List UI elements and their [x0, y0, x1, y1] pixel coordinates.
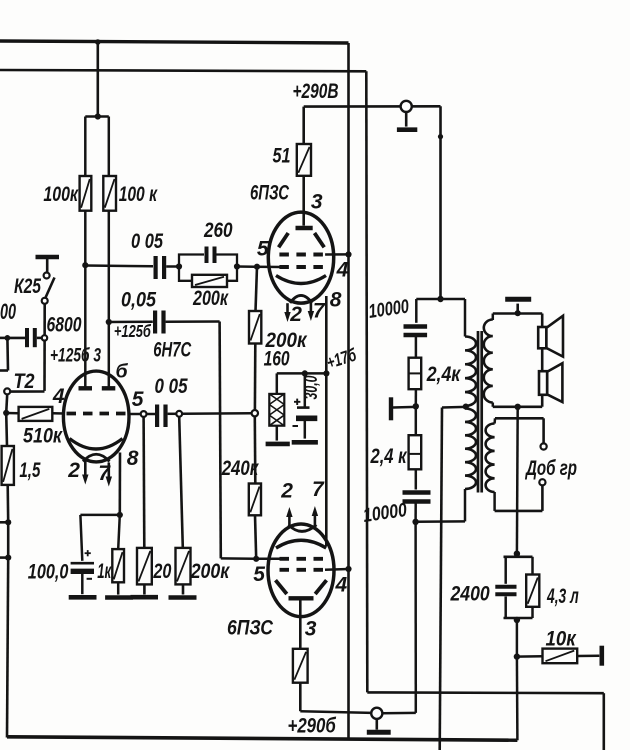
node junction primary center tap [463, 404, 469, 410]
capacitor 260 (top branch) [179, 255, 204, 267]
svg-text:б: б [116, 361, 129, 383]
wire secondary 1 top lead [492, 314, 495, 321]
svg-text:5: 5 [132, 388, 144, 411]
wire cap to bottom node [414, 504, 417, 522]
node junction grid-1 lower tube [253, 556, 259, 562]
node junction resistor split [95, 113, 101, 119]
ground bar cap 30 [292, 440, 318, 445]
wire V3 pin 4 to bus1 [325, 568, 349, 571]
capacitor 100,0 electrolytic [71, 562, 94, 565]
wire V2 pin 4 to bus1 [325, 253, 348, 256]
wire cap 100 bottom lead [81, 574, 84, 594]
svg-text:6ПЗС: 6ПЗС [250, 182, 290, 205]
wire 2.4k to cap lower [415, 469, 418, 489]
svg-text:6Н7С: 6Н7С [153, 339, 192, 362]
wire pot bottom lead [276, 426, 279, 441]
svg-text:5: 5 [253, 563, 265, 586]
node terminal after cap [176, 411, 182, 417]
wire chain bottom down [414, 522, 417, 713]
wire center tap down to bottom edge [440, 408, 442, 750]
tube V3 6P3S envelope [268, 524, 334, 617]
resistor 2.4k upper [409, 358, 422, 390]
wire RC left branch lower [504, 597, 507, 619]
node junction anode-6 / coupling [106, 319, 112, 325]
svg-text:2: 2 [289, 303, 302, 326]
tube V2 anode bar [296, 226, 313, 230]
ground bar +290V bottom [367, 730, 391, 735]
tube V2 beam plate right [315, 233, 325, 247]
speaker LS2 [539, 371, 547, 395]
wire 51 to anode V2 [302, 176, 305, 213]
svg-text:160: 160 [264, 348, 290, 371]
wire chassis to switch [46, 259, 49, 273]
svg-text:4: 4 [336, 259, 349, 282]
wire RC top [516, 554, 519, 557]
resistor 100k right [103, 176, 116, 211]
wire 6800 left lead [7, 337, 25, 340]
wire secondary 2 bottom lead [493, 492, 496, 511]
pin 2 heater lead U1 [84, 461, 87, 476]
wire left anode lead (pin 3 of 6N7S) [84, 211, 87, 387]
chassis bar above K25 [36, 255, 60, 259]
capacitor 2400 [495, 585, 516, 589]
wire +290V to 51 [302, 107, 305, 144]
svg-text:10к: 10к [546, 628, 577, 651]
wire bottom horizontal from bus 2 [367, 691, 604, 694]
capacitor 30,0 plus sign [294, 401, 300, 403]
svg-text:200к: 200к [192, 287, 229, 310]
tube V2 anode lead pin 3 [302, 212, 305, 225]
wire secondary 2 top lead [495, 417, 544, 420]
node terminal +290V bottom [371, 708, 382, 719]
svg-text:0 05: 0 05 [155, 375, 188, 398]
node junction 6800 left [5, 335, 11, 341]
pin 7 heater lead V3 [314, 516, 317, 529]
wire switch corner to input [10, 390, 44, 393]
wire cap to 2.4k upper [415, 337, 418, 358]
ground 200k grid leak [182, 584, 185, 594]
wire cathode to cap 100 [80, 514, 119, 517]
wire stub to left edge [0, 337, 7, 340]
svg-text:510к: 510к [23, 425, 63, 448]
wire 510k to grid pin 4 [52, 412, 64, 415]
node junction RC bottom [514, 617, 520, 623]
tube U1 cathode arc [70, 439, 123, 450]
node junction pin4 V3 bus1 [345, 566, 351, 572]
pin 7 heater lead V2 [310, 303, 313, 313]
switch K25 lever [46, 278, 55, 298]
svg-text:8: 8 [330, 289, 342, 312]
svg-text:1к: 1к [97, 560, 112, 583]
node junction RC top [514, 551, 520, 557]
wire top rail 2 [0, 70, 366, 71]
node junction 10k tap [514, 653, 520, 659]
node terminal dob gr lower [539, 479, 545, 485]
wire RC bottom [504, 617, 533, 620]
wire cap 30 top lead [304, 373, 307, 406]
tube V2 beam plate left [279, 233, 289, 247]
tube V3 heater arc [289, 525, 317, 532]
wire anode resistor to terminal [300, 711, 371, 713]
resistor 51 [297, 144, 311, 176]
svg-text:T2: T2 [14, 370, 35, 393]
wire primary bottom lead [464, 489, 467, 521]
wire split to primary top [441, 298, 466, 301]
capacitor 0.05 mid [155, 405, 159, 428]
tube V3 cathode arc [276, 540, 326, 548]
tube U1 anode plate 3 [79, 386, 93, 390]
wire 2.4k to center node [415, 389, 418, 406]
wire to 10k [517, 655, 543, 658]
chassis stub secondary [516, 304, 519, 314]
wire pin5 down to 20ohm [142, 417, 145, 548]
tube V3 beam plate left [276, 580, 287, 594]
tube V2 heater arc [290, 295, 312, 302]
svg-text:7: 7 [312, 478, 325, 501]
node junction parallel net left [176, 263, 182, 269]
wire RC right branch lower [531, 607, 534, 618]
wire left column upper [5, 413, 8, 446]
capacitor 100,0 minus sign [87, 578, 92, 580]
ground 20 resistor [143, 584, 146, 594]
wire stub left 2 [0, 556, 8, 559]
wire top rail 1 [0, 41, 349, 43]
wire right bus upper [439, 106, 442, 299]
tube V2 control grid dashed [279, 265, 325, 269]
wire divider mid lower [254, 416, 257, 483]
tube V3 anode bar [289, 596, 314, 600]
wire speaker column [541, 314, 544, 407]
wire stub left at 370 [0, 369, 8, 372]
resistor 1k [112, 549, 124, 582]
wire coupling lower [109, 321, 153, 324]
ground bar 1k [117, 582, 120, 594]
node junction input [3, 410, 9, 416]
wire pin5 to cap [147, 413, 156, 416]
svg-text:4: 4 [52, 385, 65, 408]
wire cap to parallel net [166, 265, 179, 268]
capacitor 10000 lower [403, 490, 431, 494]
svg-text:7: 7 [98, 462, 111, 485]
wire split to chain [416, 298, 440, 301]
wire edge link down [6, 338, 9, 371]
resistor 510k [19, 407, 53, 421]
node terminal divider mid [252, 410, 258, 416]
pin 2 heater lead V3 [288, 517, 291, 527]
chassis bar chain center [389, 397, 393, 420]
ground bar +290V top [397, 127, 417, 132]
svg-text:7: 7 [313, 300, 326, 323]
wire pot top lead [276, 373, 279, 394]
switch K25 contact lower [42, 298, 48, 304]
resistor 2.4k lower [409, 435, 422, 469]
svg-text:Доб гр: Доб гр [525, 457, 578, 480]
resistor 20 [137, 548, 152, 585]
svg-text:3: 3 [305, 618, 317, 641]
capacitor 30,0 electrolytic [297, 406, 310, 409]
node junction chain center [413, 403, 419, 409]
wire secondary 1 bottom lead [492, 403, 495, 407]
wire right resistor top lead [108, 117, 111, 177]
svg-text:4: 4 [335, 574, 348, 597]
wire RC left branch upper [504, 557, 507, 584]
capacitor 6800 [25, 328, 29, 347]
pin 5 terminal 6N7S [141, 411, 147, 417]
svg-text:+125б 3: +125б 3 [50, 345, 101, 367]
resistor 240k [249, 484, 261, 516]
svg-text:00: 00 [0, 299, 16, 324]
transformer secondary 2 winding [486, 424, 495, 493]
node junction left stub 1 [5, 519, 11, 525]
speaker LS1 [538, 327, 546, 348]
wire bus 1 vertical (+290V screen bus) [347, 43, 350, 739]
wire cap 30 bottom lead [304, 421, 307, 439]
node junction left stub 2 [5, 555, 11, 561]
svg-text:20: 20 [153, 560, 172, 583]
wire left column lower [7, 522, 10, 557]
svg-text:240к: 240к [221, 457, 259, 480]
wire 10k node to bottom rail [516, 657, 519, 741]
resistor 4.3 [526, 575, 539, 607]
svg-text:51: 51 [273, 145, 291, 168]
capacitor 0.05 upper [154, 256, 158, 279]
node blob right bus [438, 134, 443, 139]
node junction cathode bias [323, 370, 329, 376]
wire input to 510k [6, 412, 18, 415]
wire terminal stub [405, 112, 408, 127]
wire corner down to lower grid [220, 322, 221, 559]
wire feedback line [516, 407, 519, 554]
node terminal +290V top [401, 101, 412, 112]
chassis bar secondary [505, 297, 531, 302]
terminal bar 10k [599, 646, 604, 666]
svg-text:2,4к: 2,4к [426, 363, 462, 386]
pin 7 heater lead U1 [108, 463, 111, 478]
svg-text:100,0: 100,0 [28, 561, 69, 584]
transformer primary upper winding [465, 337, 476, 406]
capacitor 0.05 lower [153, 311, 157, 334]
tube V3 beam plate right [315, 580, 326, 594]
svg-text:0,05: 0,05 [121, 289, 156, 312]
wire center to chassis bar [393, 406, 416, 409]
transformer primary lower winding [465, 409, 476, 490]
tube V2 6P3S envelope [268, 212, 333, 303]
svg-text:260: 260 [203, 219, 233, 242]
wire cathode to 1k [118, 515, 120, 549]
wire coupling upper [85, 264, 153, 267]
tube V2 cathode arc [276, 276, 326, 284]
tube U1 heater arc [83, 454, 110, 461]
wire to lower grid node [221, 557, 256, 560]
svg-text:100 к: 100 к [119, 183, 158, 206]
wire terminal to divider [182, 412, 252, 415]
node input terminal T2 [4, 388, 10, 394]
tube U1 anode plate 6 [102, 386, 116, 390]
node junction pin4 V2 bus1 [345, 251, 351, 257]
wire left column to bottom rail [7, 558, 8, 738]
wire terminal stub bottom [375, 719, 378, 730]
svg-text:100к: 100к [43, 183, 79, 206]
wire grid node down [256, 267, 258, 311]
tube V2 screen grid dashed [279, 253, 325, 257]
resistor anode V3 [293, 649, 308, 683]
wire corner to +290V bottom terminal [382, 712, 415, 715]
svg-text:2: 2 [280, 480, 293, 503]
resistor 160 wirewound [269, 394, 284, 426]
wire bus 2 vertical [366, 71, 367, 692]
ground bar pot [266, 442, 290, 447]
wire bottom rail [7, 737, 517, 740]
node junction grid-1 upper tube [254, 264, 260, 270]
wire +290V rail [304, 105, 441, 108]
node junction top rail / plate feed [95, 39, 101, 45]
wire 10k to terminal [577, 655, 599, 658]
svg-text:2400: 2400 [450, 583, 490, 606]
svg-text:30,0: 30,0 [301, 376, 321, 400]
wire pin 8 cathode lead U1 [119, 453, 122, 515]
svg-text:6ПЗС: 6ПЗС [227, 617, 274, 640]
wire pin5 lead [128, 413, 141, 416]
svg-text:2: 2 [67, 459, 80, 482]
wire V3 pin 5 lead [256, 558, 279, 561]
resistor 200k (bottom branch) [179, 267, 192, 281]
tube V3 anode lead pin 3 [299, 598, 302, 649]
wire left column mid [6, 485, 9, 522]
svg-text:4,3 л: 4,3 л [546, 585, 578, 608]
node terminal dob gr upper [541, 443, 547, 449]
transformer core [477, 331, 480, 493]
capacitor 100,0 plus sign [85, 552, 91, 554]
pin 2 heater lead V2 [286, 303, 289, 313]
resistor 200k divider [249, 311, 261, 344]
node junction parallel net right [234, 263, 240, 269]
node junction anode-3 / coupling [82, 262, 88, 268]
wire after-cap down to 200k [179, 417, 183, 548]
svg-text:+290б: +290б [288, 715, 337, 738]
resistor 100k left [80, 176, 92, 211]
wire plate feed vertical [97, 42, 100, 117]
transformer secondary 1 winding [484, 320, 493, 403]
svg-text:8: 8 [127, 447, 139, 470]
svg-text:0 05: 0 05 [131, 230, 163, 253]
wire 240k to lower grid node [255, 515, 256, 559]
wire right anode lead (pin 6 of 6N7S) [108, 211, 111, 387]
wire input down [6, 394, 7, 413]
node junction secondary top [515, 310, 521, 316]
wire bias tap [277, 372, 327, 375]
wire 6800 right lead [37, 337, 42, 340]
tube V3 control grid dashed [280, 557, 326, 561]
wire center to 2.4k lower [415, 406, 418, 435]
svg-text:5: 5 [257, 238, 269, 261]
ground bar cap 100 [69, 595, 97, 600]
wire left resistor top lead [84, 117, 87, 177]
wire anode resistor down [299, 683, 302, 712]
tube U1 6N7S envelope [63, 371, 129, 462]
wire switch down [43, 304, 46, 391]
capacitor 10000 upper [404, 324, 428, 328]
svg-text:+290В: +290В [293, 80, 339, 103]
svg-text:+125б: +125б [114, 321, 152, 341]
switch K25 contact upper [44, 273, 50, 279]
svg-text:3: 3 [311, 191, 323, 214]
wire RC to 10k node [516, 620, 519, 657]
wire stub left 1 [0, 521, 8, 524]
node junction secondary bottom / feedback [515, 404, 521, 410]
tube U1 grid (dashed) [67, 412, 127, 416]
svg-text:К25: К25 [14, 275, 41, 298]
svg-text:200к: 200к [190, 560, 231, 583]
wire RC right branch upper [531, 557, 534, 575]
node terminal on switch wire [42, 335, 47, 340]
node junction right bus split [437, 296, 443, 302]
resistor 200k grid leak [176, 548, 191, 585]
svg-text:1,5: 1,5 [19, 459, 40, 482]
node junction chain bottom [412, 519, 418, 525]
resistor 1.5 [2, 446, 14, 485]
wire center tap [442, 406, 466, 409]
resistor 10k [543, 649, 578, 664]
wire cap to corner [166, 320, 220, 323]
wire cathode bus [325, 296, 328, 546]
wire divider mid upper [254, 344, 257, 411]
wire cap to divider node [168, 413, 177, 416]
wire to upper tube grid [237, 265, 281, 268]
node junction cathode U1 [117, 512, 123, 518]
node junction bias cap [302, 370, 308, 376]
tube V3 screen grid dashed [280, 568, 326, 572]
svg-text:6800: 6800 [47, 314, 82, 337]
wire right edge vertical to bottom [602, 693, 605, 750]
svg-text:2,4 к: 2,4 к [370, 445, 408, 468]
wire resistor split bar [85, 115, 109, 118]
